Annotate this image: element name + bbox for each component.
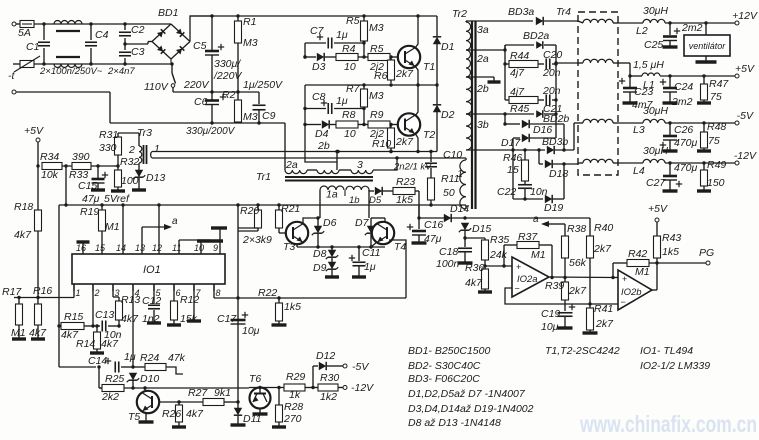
- svg-text:BD2- S30C40C: BD2- S30C40C: [408, 360, 481, 372]
- resistor R42 M1 feedback: [613, 248, 657, 278]
- svg-text:R35: R35: [490, 234, 509, 246]
- svg-text:C5: C5: [193, 40, 207, 52]
- svg-text:3a: 3a: [477, 24, 489, 36]
- capacitor C14 1u: [59, 351, 136, 373]
- Tr2 winding 2b: [466, 77, 489, 114]
- wire IO2a minus loop: [505, 288, 618, 304]
- capacitor C16 47u: [407, 218, 444, 245]
- svg-text:D17: D17: [501, 137, 521, 149]
- wire C2-C3 mid to bridge: [123, 42, 152, 46]
- diode BD2a: [466, 30, 556, 52]
- resistor R12 15k pin6: [167, 284, 199, 325]
- diode D13 zener: [132, 163, 165, 190]
- svg-text:C17: C17: [217, 313, 237, 325]
- wire +12V rail: [665, 21, 735, 24]
- svg-text:R40: R40: [594, 222, 613, 234]
- capacitor C4: [85, 24, 109, 64]
- transistor T4: [372, 222, 407, 253]
- wire pin13 net a: [142, 216, 178, 248]
- diode D3: [303, 53, 336, 73]
- svg-text:D8 až D13 -1N4148: D8 až D13 -1N4148: [408, 417, 501, 429]
- svg-text:10: 10: [344, 61, 356, 73]
- svg-text:M3: M3: [369, 22, 384, 34]
- svg-text:220V: 220V: [183, 79, 210, 91]
- svg-text:D14: D14: [450, 203, 469, 215]
- svg-text:1k: 1k: [289, 389, 301, 401]
- svg-text:R12: R12: [180, 294, 199, 306]
- svg-text:1k5: 1k5: [284, 301, 301, 313]
- wire Tr2 primary bottom: [419, 205, 466, 209]
- capacitor C22 10n: [497, 185, 548, 201]
- resistor R33 390: [69, 151, 91, 181]
- transformer Tr1 core: [256, 171, 373, 183]
- transistor T1: [398, 46, 435, 73]
- svg-text:C6: C6: [194, 96, 208, 108]
- wire T2 collector: [415, 85, 418, 116]
- svg-text:R19: R19: [80, 206, 99, 218]
- svg-text:47k: 47k: [168, 352, 186, 364]
- Tr4 coil +12V: [578, 19, 618, 23]
- svg-text:470μ: 470μ: [674, 162, 698, 174]
- svg-text:1: 1: [457, 168, 463, 180]
- svg-text:270: 270: [283, 413, 302, 425]
- svg-text:-t: -t: [8, 70, 15, 82]
- capacitor C25 2m2: [644, 22, 703, 51]
- svg-text:IO1- TL494: IO1- TL494: [640, 345, 693, 357]
- svg-text:T3: T3: [283, 241, 295, 253]
- svg-text:R8: R8: [342, 109, 356, 121]
- svg-text:10k: 10k: [41, 169, 59, 181]
- svg-text:R14: R14: [76, 338, 95, 350]
- svg-text:2m2: 2m2: [671, 96, 693, 108]
- svg-text:T1: T1: [423, 61, 435, 73]
- svg-text:R4: R4: [342, 43, 356, 55]
- svg-text:R38: R38: [567, 223, 586, 235]
- label 110V: [144, 81, 169, 93]
- svg-text:R39: R39: [545, 280, 564, 292]
- note BD3 type: [408, 373, 480, 385]
- capacitor C5 330u/220V: [193, 16, 242, 92]
- wire pin12 to rail: [158, 205, 160, 248]
- capacitor C2: [119, 24, 145, 44]
- svg-text:2k7: 2k7: [568, 285, 587, 297]
- diode D1: [433, 16, 455, 85]
- wire T6 rail: [249, 386, 284, 389]
- diode D2: [433, 85, 455, 152]
- svg-text:1μ: 1μ: [336, 95, 348, 107]
- svg-text:a: a: [533, 214, 539, 225]
- svg-text:R5: R5: [370, 43, 384, 55]
- wire y218 rail: [417, 216, 590, 219]
- terminal -5V out: [735, 110, 754, 125]
- terminal -12V: [343, 382, 374, 394]
- wire T3 collector: [303, 216, 320, 224]
- svg-text:2k7: 2k7: [595, 318, 614, 330]
- svg-text:R47: R47: [709, 78, 729, 90]
- wire mid rail T1/T2: [305, 83, 439, 86]
- diode D4: [305, 120, 336, 140]
- svg-text:1μ: 1μ: [124, 351, 136, 363]
- label 5Vref: [104, 193, 130, 205]
- resistor R34 10k: [36, 151, 62, 181]
- wire pin4 down to C14 row: [131, 284, 134, 369]
- terminal PG: [699, 247, 714, 265]
- resistor R49 150: [697, 159, 726, 191]
- Tr1 winding 3: [339, 158, 397, 174]
- svg-text:M1: M1: [11, 327, 26, 339]
- svg-text:4k7: 4k7: [186, 408, 204, 420]
- svg-text:2k2: 2k2: [101, 391, 119, 403]
- capacitor C19 10u: [541, 304, 575, 333]
- svg-text:9k1: 9k1: [214, 387, 231, 399]
- svg-text:C10: C10: [443, 149, 462, 161]
- wire cell2 to Tr1 link: [303, 85, 338, 170]
- Tr2 winding 3a: [466, 21, 489, 50]
- diode BD2b: [466, 110, 569, 125]
- label 5A: [18, 27, 31, 39]
- svg-text:47μ: 47μ: [82, 193, 100, 205]
- svg-text:D1: D1: [441, 41, 454, 53]
- resistor R8 10: [336, 109, 366, 140]
- svg-text:R15: R15: [64, 311, 83, 323]
- resistor R35 24k: [465, 234, 509, 268]
- svg-text:R17: R17: [2, 286, 22, 298]
- wire 5Vref long rail: [59, 203, 419, 218]
- resistor R31 330: [99, 129, 122, 168]
- svg-text:-12V: -12V: [351, 382, 374, 394]
- transformer Tr2 core: [452, 8, 476, 209]
- resistor R10 2k7: [372, 123, 414, 153]
- svg-text:C8: C8: [312, 91, 326, 103]
- wire drive rail lower: [152, 156, 466, 159]
- capacitor C21 20n: [542, 85, 562, 115]
- svg-text:C24: C24: [674, 81, 693, 93]
- wire -5V rail: [665, 121, 735, 124]
- diode D8 zener: [313, 247, 338, 262]
- svg-text:2a: 2a: [285, 159, 298, 171]
- label -t: [8, 70, 15, 82]
- svg-text:Tr1: Tr1: [256, 171, 271, 183]
- svg-text:10: 10: [194, 243, 204, 253]
- svg-text:R42: R42: [628, 248, 647, 260]
- svg-text:C9: C9: [262, 110, 276, 122]
- svg-text:30μH: 30μH: [643, 105, 668, 117]
- svg-text:+5V: +5V: [735, 63, 755, 75]
- svg-text:2k7: 2k7: [395, 68, 414, 80]
- svg-text:D1,D2,D5až D7 -1N4007: D1,D2,D5až D7 -1N4007: [408, 388, 526, 400]
- svg-text:C1: C1: [26, 41, 39, 53]
- resistor R26 4k7: [162, 402, 204, 427]
- wire return rail: [110, 121, 285, 124]
- svg-text:D18: D18: [549, 168, 568, 180]
- label 2b: [317, 140, 330, 152]
- note D1 group: [408, 388, 526, 400]
- svg-text:R30: R30: [320, 372, 339, 384]
- svg-text:R2: R2: [222, 89, 236, 101]
- svg-text:R31: R31: [99, 129, 118, 141]
- common-mode choke: [54, 21, 82, 68]
- svg-text:2: 2: [94, 288, 100, 298]
- svg-text:R49: R49: [707, 159, 726, 171]
- note D3 group: [408, 403, 534, 415]
- capacitor C12 1n2 pin5: [142, 284, 161, 325]
- svg-text:M3: M3: [243, 37, 258, 49]
- terminal +5V comparator: [655, 218, 659, 236]
- terminal -5V: [343, 361, 369, 373]
- svg-text:11: 11: [172, 243, 181, 253]
- svg-text:R13: R13: [121, 294, 140, 306]
- wire -12V rail: [665, 161, 735, 164]
- resistor R24 47k: [133, 352, 186, 374]
- svg-text:R23: R23: [396, 176, 415, 188]
- svg-text:390: 390: [72, 151, 90, 163]
- resistor R45 4j7: [505, 64, 544, 115]
- diode D19: [513, 150, 564, 214]
- svg-text:IO1: IO1: [143, 264, 161, 276]
- resistor R7 M3: [346, 83, 384, 125]
- capacitor C10: [425, 149, 462, 178]
- svg-text:2a: 2a: [476, 53, 489, 65]
- svg-text:-5V: -5V: [352, 361, 369, 373]
- svg-text:L2: L2: [636, 25, 648, 37]
- inductor L2 30uH: [618, 5, 668, 37]
- diode D17: [501, 114, 556, 150]
- svg-text:4k7: 4k7: [29, 327, 47, 339]
- svg-text:150: 150: [707, 177, 725, 189]
- wire R35 to IO2a +: [485, 264, 512, 267]
- svg-text:R37: R37: [518, 231, 538, 243]
- svg-text:47μ: 47μ: [424, 233, 442, 245]
- wire R29-R30 node: [305, 386, 318, 389]
- svg-text:D3,D4,D14až D19-1N4002: D3,D4,D14až D19-1N4002: [408, 403, 534, 415]
- svg-text:C12: C12: [142, 295, 161, 307]
- svg-text:24k: 24k: [489, 249, 508, 261]
- terminal +5V: [36, 138, 40, 166]
- svg-text:5A: 5A: [18, 27, 31, 39]
- resistor R22 1k5: [258, 287, 301, 325]
- resistor R21: [276, 203, 301, 233]
- svg-text:−: −: [515, 284, 520, 294]
- svg-text:R44: R44: [510, 50, 529, 62]
- resistor R28 270: [272, 388, 303, 428]
- svg-text:T1,T2-2SC4242: T1,T2-2SC4242: [545, 345, 620, 357]
- svg-text:20n: 20n: [542, 85, 561, 97]
- svg-text:1μ: 1μ: [364, 261, 376, 273]
- capacitor C8 1u: [305, 91, 366, 114]
- diode D14: [444, 203, 470, 222]
- svg-text:C20: C20: [543, 49, 562, 61]
- svg-text:IO2b: IO2b: [621, 287, 642, 298]
- svg-text:15: 15: [95, 243, 106, 253]
- resistor R2 M3: [222, 89, 258, 123]
- svg-text:T4: T4: [394, 241, 406, 253]
- wire T1 emitter: [415, 66, 418, 85]
- Tr1 winding 1a: [320, 186, 344, 201]
- Tr1 winding 2a: [285, 123, 307, 174]
- diode D18: [539, 150, 578, 180]
- transistor T3: [283, 222, 308, 253]
- svg-text:10: 10: [344, 128, 356, 140]
- svg-text:D6: D6: [323, 217, 337, 229]
- svg-text:D7: D7: [355, 217, 370, 229]
- wire IO2b output: [652, 263, 657, 290]
- svg-text:R6: R6: [374, 70, 388, 82]
- transistor T2: [398, 113, 436, 141]
- note T1 T2 type: [545, 345, 620, 357]
- resistor R36 4k7: [465, 262, 492, 292]
- svg-text:+: +: [622, 274, 627, 284]
- Tr3 winding 1: [151, 143, 160, 158]
- resistor R17 M1: [2, 286, 26, 339]
- wire pin7 ground: [187, 284, 201, 321]
- svg-text:9: 9: [213, 243, 218, 253]
- capacitor C6 330u/200V: [186, 92, 236, 137]
- svg-text:R20: R20: [240, 205, 259, 217]
- svg-text:a: a: [172, 216, 178, 227]
- label 2x100n/250V~: [39, 66, 103, 77]
- svg-text:C19: C19: [541, 308, 560, 320]
- svg-text:2×4n7: 2×4n7: [107, 66, 135, 77]
- wire D7 to T4 collector: [371, 218, 391, 226]
- resistor R46 15: [503, 150, 529, 184]
- svg-text:+12V: +12V: [732, 10, 758, 22]
- svg-text:75: 75: [708, 135, 720, 147]
- svg-text:ventilátor: ventilátor: [689, 41, 727, 51]
- op-amp IO2b: [618, 270, 652, 310]
- note D8 group: [408, 417, 501, 429]
- IC IO1 TL494 body: [72, 254, 225, 284]
- capacitor C27 470u: [646, 162, 698, 191]
- svg-text:BD2a: BD2a: [523, 30, 549, 42]
- watermark chinafix: [579, 411, 757, 437]
- wire T5 emitter: [139, 412, 154, 422]
- svg-text:R29: R29: [286, 371, 305, 383]
- resistor R16 4k7: [29, 285, 52, 339]
- svg-text:330μ/: 330μ/: [214, 58, 241, 70]
- wire T4 base: [368, 190, 370, 218]
- svg-text:T6: T6: [249, 373, 261, 385]
- choke Tr4 dashed box: [578, 12, 618, 175]
- label +5V: [24, 125, 44, 137]
- input terminal top: [12, 22, 16, 26]
- terminal +12V: [732, 10, 758, 25]
- resistor R41 2k7: [583, 303, 615, 333]
- diode BD3a: [466, 6, 578, 25]
- svg-text:330μ/200V: 330μ/200V: [186, 126, 236, 137]
- Tr1 winding 1b: [345, 186, 369, 206]
- svg-text:1a: 1a: [326, 189, 338, 201]
- svg-text:D9: D9: [313, 262, 327, 274]
- svg-text:2: 2: [128, 144, 135, 156]
- svg-text:-5V: -5V: [737, 110, 754, 122]
- resistor R43 1k5: [654, 232, 682, 265]
- svg-text:R28: R28: [284, 401, 303, 413]
- svg-text:D16: D16: [533, 124, 552, 136]
- svg-text:2×3k9: 2×3k9: [242, 234, 272, 246]
- resistor R47 75: [697, 74, 729, 103]
- IO1 pin stubs and numbers: [74, 243, 221, 298]
- terminal -12V out: [734, 150, 757, 165]
- svg-text:PG: PG: [699, 247, 714, 259]
- label 2x3k9: [242, 234, 272, 246]
- svg-text:C13: C13: [95, 309, 114, 321]
- svg-text:50: 50: [443, 187, 455, 199]
- svg-text:4k7: 4k7: [121, 313, 139, 325]
- svg-text:30μH: 30μH: [643, 145, 668, 157]
- svg-text:10μ: 10μ: [242, 325, 260, 337]
- capacitor C15 47u: [78, 164, 108, 205]
- svg-text:D10: D10: [140, 373, 159, 385]
- svg-text:M1: M1: [635, 266, 650, 278]
- svg-text:L3: L3: [633, 124, 645, 136]
- svg-text:C25: C25: [644, 39, 663, 51]
- terminal +5V out: [735, 63, 755, 78]
- svg-text:16: 16: [76, 243, 86, 253]
- capacitor C7 1u: [305, 25, 366, 49]
- svg-text:R10: R10: [372, 138, 391, 150]
- wire IO2a output rail: [549, 276, 618, 279]
- resistor R20: [238, 205, 262, 231]
- svg-text:5Vref: 5Vref: [104, 193, 130, 205]
- resistor R23 1k5: [393, 176, 419, 206]
- resistor R40 2k7: [587, 218, 614, 306]
- label Tr4: [556, 6, 571, 18]
- wire T5 base row: [159, 400, 203, 403]
- svg-text:D4: D4: [315, 128, 329, 140]
- thermistor -t: [14, 56, 40, 72]
- svg-text:M1: M1: [105, 221, 120, 233]
- svg-text:−: −: [621, 297, 626, 307]
- note IO2 type: [640, 360, 710, 372]
- Tr2 winding 2a: [466, 50, 489, 77]
- label 2n2/1kV: [393, 162, 433, 173]
- wire T3 emitter: [297, 244, 385, 249]
- resistor R6 2k7: [374, 55, 414, 83]
- label +5V comparator: [648, 203, 668, 215]
- svg-text:C4: C4: [95, 29, 109, 41]
- Tr2 center tap ground: [466, 77, 501, 82]
- wire R23 to D14 node: [418, 191, 420, 218]
- svg-text:8: 8: [216, 288, 221, 298]
- inductor L4 30uH: [618, 145, 668, 177]
- svg-text:R16: R16: [33, 285, 52, 297]
- svg-text:C26: C26: [674, 124, 693, 136]
- transistor T5: [128, 391, 159, 423]
- svg-text:2k7: 2k7: [395, 136, 414, 148]
- transformer Tr3: [128, 127, 152, 164]
- wire T2 emitter: [415, 133, 420, 153]
- svg-text:R34: R34: [40, 151, 59, 163]
- resistor R11 50: [428, 173, 460, 207]
- Tr4 coil -5V: [578, 119, 618, 123]
- svg-text:3: 3: [357, 159, 363, 171]
- svg-text:Tr4: Tr4: [556, 6, 571, 18]
- wire cell1 left vertical: [303, 43, 306, 59]
- svg-text:30μH: 30μH: [643, 5, 668, 17]
- wire net a arrow: [533, 214, 565, 227]
- resistor R4 10: [336, 43, 366, 73]
- svg-text:R7: R7: [346, 83, 361, 95]
- svg-text:1k5: 1k5: [396, 194, 413, 206]
- svg-text:15k: 15k: [180, 313, 198, 325]
- svg-text:R26: R26: [162, 408, 181, 420]
- Tr2 winding 3b: [466, 114, 489, 150]
- svg-text:D8: D8: [313, 248, 327, 260]
- svg-text:14: 14: [116, 243, 126, 253]
- svg-text:R21: R21: [281, 203, 300, 215]
- wire AC line top: [16, 22, 171, 25]
- svg-text:2×100n/250V~: 2×100n/250V~: [39, 66, 103, 77]
